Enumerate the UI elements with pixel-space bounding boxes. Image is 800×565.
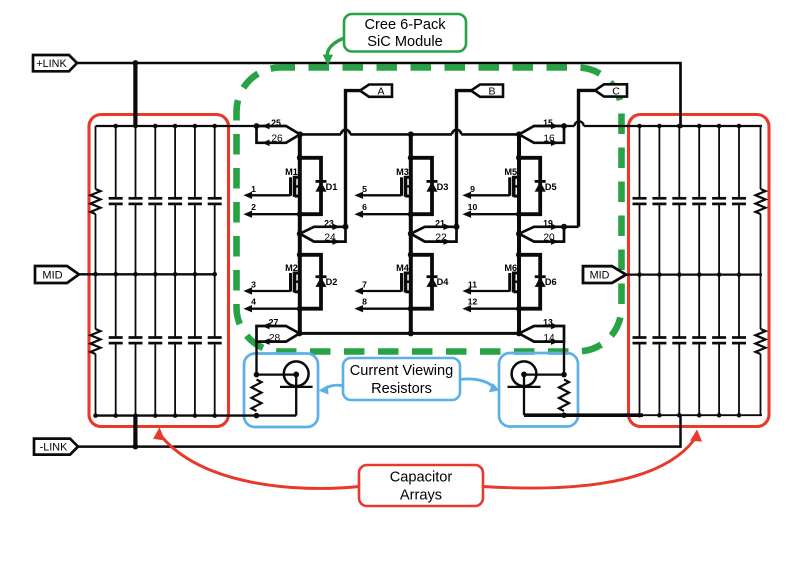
svg-text:M5: M5 [504,167,517,177]
diode D2 [316,275,327,278]
junction tag 23 point [297,231,303,237]
phase C tag [595,84,627,96]
svg-text:D2: D2 [326,277,338,287]
diode D3 [427,180,438,183]
svg-text:MID: MID [590,270,610,282]
pin 5 gate wire [363,194,402,196]
wire -LINK riser to left array (thick) [133,416,137,447]
svg-text:M2: M2 [285,263,298,273]
left array mid bus [78,273,215,275]
capacitor right array bottom C24 [738,275,740,338]
capacitor left array top C6 [214,126,216,198]
junction B lower drain [408,252,414,258]
left array bottom bus [96,414,297,416]
terminal tag 15/16 (leg C top) [519,126,564,143]
leg B spine wire [409,134,413,333]
svg-text:M3: M3 [396,167,409,177]
blue arrow to right CVR [460,379,493,387]
terminal tag 21/22 (leg B mid) [411,227,457,242]
pin 3 gate wire [252,290,291,292]
junction phase C at tag 19 corner [561,224,567,230]
leg A spine wire [298,134,302,333]
junction phase B at tag 21 corner [454,224,460,230]
transistor M5 [508,177,511,196]
svg-text:12: 12 [468,297,478,307]
junction tag 27 point [297,330,303,336]
capacitor left array top C3 [154,126,156,198]
current probe circle right [512,361,537,386]
capacitor left array top C2 [135,126,137,198]
junction C lower source [516,306,522,312]
right CVR top node wire [524,373,564,375]
capacitor left array bottom C7 [115,274,117,337]
junction B upper drain [408,155,414,161]
left capacitor array outline (red rounded rect) [89,115,229,427]
junction tag 25 point [297,131,303,137]
wire tag 14 to right CVR [563,342,565,375]
capacitor right array bottom C23 [718,275,720,338]
svg-text:2: 2 [251,202,256,212]
svg-text:9: 9 [470,184,475,194]
capacitor left array top C1 [115,126,117,198]
transistor M4 [400,273,403,292]
junction dots right array mid bus [637,272,642,277]
-LINK tag [34,439,78,455]
capacitor right array bottom C19 [639,275,641,338]
+LINK bus wire [77,63,681,126]
capacitor right array top C16 [698,126,700,198]
junction -LINK to left array [133,444,139,450]
svg-text:6: 6 [362,202,367,212]
pin 4 source wire [252,308,300,310]
svg-text:C: C [612,85,620,97]
terminal tag 19/20 (leg C mid) [519,227,564,242]
svg-text:M4: M4 [396,263,410,273]
junction A lower drain [297,252,303,258]
svg-text:D4: D4 [437,277,450,287]
junction tag 15 point [516,131,522,137]
junction C lower drain [516,252,522,258]
transistor M3 [400,177,403,196]
transistor M6 [508,273,511,292]
MID tag right [583,266,626,283]
resistor left CVR [252,380,262,412]
diode branch D3 wire [411,158,432,214]
svg-text:SiC Module: SiC Module [367,34,442,50]
junction left CVR top [254,372,260,378]
junction B upper source [408,211,414,217]
junction C upper source [516,211,522,217]
bleeder resistor left-bottom [95,274,97,329]
svg-text:+LINK: +LINK [36,58,67,70]
transistor M1 [289,177,292,196]
capacitor left array bottom C8 [135,274,137,337]
svg-text:25: 25 [271,118,281,128]
junction B lower source [408,306,414,312]
svg-text:MID: MID [42,269,62,281]
left current viewing resistor box (blue rounded rect) [244,354,318,428]
pin 6 source wire [363,213,411,215]
junction right CVR bottom [561,412,567,418]
svg-text:B: B [488,86,495,98]
bleeder resistor right-bottom [760,275,762,329]
bleeder resistor left-top [95,126,97,189]
diode D5 [535,180,546,183]
capacitor right array top C18 [738,126,740,198]
svg-text:4: 4 [251,297,256,307]
current probe bar left [280,386,313,388]
blue arrow to left CVR [326,385,343,388]
capacitor right array bottom C20 [658,275,660,338]
junction A upper source [297,211,303,217]
phase C wire [579,90,596,226]
junction A upper drain [297,155,303,161]
diode branch D1 wire [300,158,321,214]
svg-text:10: 10 [468,202,478,212]
wire +LINK drop to right array [679,63,681,126]
terminal tag 27/28 (leg A bottom) [257,326,300,342]
junction dots right array top bus [637,124,642,129]
svg-text:3: 3 [251,280,256,290]
right CVR probe drop wire [523,374,525,415]
diode branch D5 wire [519,158,540,214]
capacitor right array bottom C22 [698,275,700,338]
svg-text:Current Viewing: Current Viewing [350,363,454,379]
diode branch D6 wire [519,255,540,309]
junction right array top at +LINK drop [678,124,683,129]
CVR label box (Current Viewing Resistors) [343,358,460,400]
capacitor left array bottom C9 [154,274,156,337]
current probe center dot left [293,372,299,378]
junction dots right array bottom bus [637,413,642,418]
pin 8 source wire [363,308,411,310]
capacitor right array top C13 [639,126,641,198]
junction leg B drain bus [408,131,414,137]
diode D4 [427,275,438,278]
diode branch D4 wire [411,255,432,309]
-LINK bus wire [77,415,681,447]
module drain bus (with hops over phase A and B) [300,133,341,136]
junction tag 19 point [516,231,522,237]
svg-text:A: A [377,86,384,98]
MID tag left [35,266,79,283]
phase B tag [471,85,503,97]
svg-text:1: 1 [251,184,256,194]
capacitor right array bottom C21 [678,275,680,338]
transistor M2 [289,273,292,292]
terminal tag 13/14 (leg C bottom) [519,326,564,342]
junction +LINK to left array [133,60,139,66]
left CVR top node wire [257,373,297,375]
phase A tag [360,85,392,97]
junction phase A at tag 23 corner [343,224,349,230]
terminal tag 25/26 (leg A top) [257,126,301,143]
junction tag 13 point [516,330,522,336]
capacitor right array top C14 [658,126,660,198]
junction dots left array mid bus [93,272,98,277]
phase B wire [457,91,472,227]
svg-text:-LINK: -LINK [40,442,68,454]
capacitor arrays label box [359,465,483,506]
wire tag 28 to left CVR [255,342,257,375]
junction C upper drain [516,155,522,161]
svg-text:11: 11 [468,280,477,290]
svg-text:Capacitor: Capacitor [390,470,453,486]
left CVR probe drop wire [295,374,297,415]
Cree module boundary (green dashed rounded rect) [237,68,622,352]
current probe circle left [284,361,309,386]
right current viewing resistor box (blue rounded rect) [499,353,578,427]
current probe bar right [508,386,541,388]
junction dots left array top bus [113,124,118,129]
pin 10 source wire [471,213,519,215]
red arrow to left capacitor array [162,437,359,488]
svg-text:D5: D5 [545,182,557,192]
pin 2 source wire [252,213,300,215]
right array bottom bus [524,413,643,417]
svg-text:5: 5 [362,184,367,194]
pin 9 gate wire [471,194,510,196]
capacitor right array top C15 [678,126,680,198]
junction right bus to tag 16 [561,123,567,129]
svg-text:Arrays: Arrays [400,488,442,504]
svg-text:27: 27 [269,318,279,328]
right array top bus (with hop over phase C) [564,125,575,127]
diode D1 [316,180,327,183]
right capacitor array outline (red rounded rect) [629,115,770,427]
left array top bus [96,125,257,127]
svg-text:M6: M6 [504,263,517,273]
svg-text:D3: D3 [437,182,449,192]
capacitor right array top C17 [718,126,720,198]
red arrow to right capacitor array [483,440,694,488]
svg-text:26: 26 [271,134,283,145]
capacitor left array bottom C12 [214,274,216,337]
capacitor left array top C4 [174,126,176,198]
svg-text:Resistors: Resistors [371,381,432,397]
junction right CVR top [561,372,567,378]
phase A wire [346,91,361,227]
junction left CVR bottom [254,413,260,419]
resistor right CVR [559,380,569,412]
capacitor left array bottom C11 [194,274,196,337]
right array mid bus [626,273,762,275]
svg-text:28: 28 [269,333,281,344]
green arrow from module label [327,37,347,57]
leg C spine wire [517,134,521,333]
svg-text:D1: D1 [326,182,338,192]
pin 7 gate wire [363,290,402,292]
module label box (Cree 6-Pack SiC Module) [344,14,466,52]
terminal tag 23/24 (leg A mid) [300,227,346,242]
junction A lower source [297,306,303,312]
diode D6 [535,275,546,278]
svg-text:M1: M1 [285,167,298,177]
junction left bus to tag 25 [254,123,260,129]
svg-text:8: 8 [362,297,367,307]
+LINK tag [33,55,77,71]
current probe center dot right [521,372,527,378]
capacitor left array top C5 [194,126,196,198]
module source rail [300,332,520,335]
junction dots left array bottom bus [93,413,98,418]
svg-text:Cree 6-Pack: Cree 6-Pack [364,17,446,33]
pin 11 gate wire [471,290,510,292]
svg-text:D6: D6 [545,277,557,287]
pin 12 source wire [471,308,519,310]
wire +LINK drop to left array (thick) [133,63,137,126]
junction tag 21 point [408,231,414,237]
svg-text:7: 7 [362,280,367,290]
bleeder resistor right-top [760,126,762,189]
capacitor left array bottom C10 [174,274,176,337]
pin 1 gate wire [252,194,291,196]
junction leg B source rail [408,330,414,336]
diode branch D2 wire [300,255,321,309]
